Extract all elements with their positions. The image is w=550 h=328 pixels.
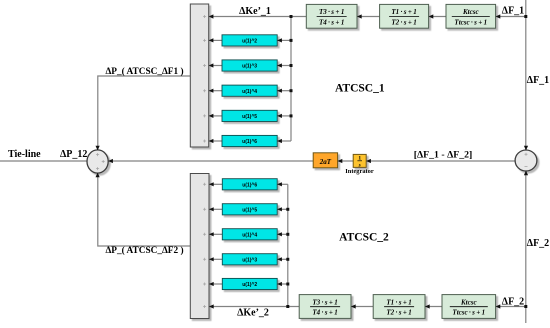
wire top u-block output y=90.7	[209, 90, 222, 92]
block transfer-fcn U_TF1b T3s+1/T4s+1	[299, 295, 351, 319]
svg-text:T4 · s + 1: T4 · s + 1	[319, 18, 344, 26]
block transfer-fcn U_TF1a T3s+1/T4s+1	[306, 4, 357, 28]
junction top feeder branch y=115.9	[290, 114, 293, 117]
wire dF_1 tap to top tcsc block	[496, 16, 526, 18]
arrowhead into sum2 y=209.3	[209, 207, 214, 211]
block Fcn u(1)^2 (bottom group)	[222, 278, 277, 289]
wire top u-block output y=40.4	[209, 39, 222, 41]
arrowhead into TCSC1	[496, 14, 501, 18]
junction bottom feeder branch y=259.3	[286, 258, 289, 261]
wire bottom u-block output y=259.3	[209, 258, 222, 260]
svg-text:u(1)^4: u(1)^4	[242, 232, 257, 238]
junction top feeder tap	[290, 15, 293, 18]
arrowhead into sum1 y=40.4	[209, 38, 214, 42]
svg-text:T3 · s + 1: T3 · s + 1	[312, 298, 337, 306]
svg-text:ΔP_( ATCSC_ΔF1 ): ΔP_( ATCSC_ΔF1 )	[105, 66, 183, 77]
junction dF_2 tap	[524, 305, 527, 308]
wire 2aT output to left sum	[108, 160, 313, 162]
arrowhead into sum1 dKe1 port	[209, 14, 214, 18]
arrowhead into sum2 y=284.0	[209, 282, 214, 286]
wire top feeder stub y=115.9	[277, 115, 291, 117]
svg-text:u(1)^2: u(1)^2	[242, 39, 257, 45]
wire bottom feeder vertical for power blocks	[287, 184, 289, 306]
wire dP_(ATCSC_dF2): sum2 output horizontal	[98, 173, 191, 246]
svg-text:u(1)^5: u(1)^5	[242, 207, 257, 213]
arrowhead into bottom u-block y=259.3	[277, 257, 282, 261]
arrowhead into top u-block y=90.7	[277, 89, 282, 93]
arrowhead into TCSC2	[496, 304, 501, 308]
block Fcn u(1)^3 (bottom group)	[222, 254, 277, 265]
svg-text:T2 · s + 1: T2 · s + 1	[386, 309, 411, 317]
wire bottom feeder stub y=259.3	[277, 258, 288, 260]
arrowhead into top u-block y=141.0	[277, 139, 282, 143]
block gain 2aT	[313, 153, 337, 168]
wire bottom feeder stub y=184.3	[277, 183, 288, 185]
svg-text:T3 · s + 1: T3 · s + 1	[319, 8, 344, 16]
svg-text:Ttcsc · s + 1: Ttcsc · s + 1	[452, 309, 485, 317]
wire top u-block output y=65.5	[209, 65, 222, 67]
wire top feeder stub y=40.4	[277, 39, 291, 41]
wire bottom u-block output y=284.0	[209, 283, 222, 285]
svg-text:ΔKe’_2: ΔKe’_2	[237, 308, 269, 319]
svg-text:u(1)^6: u(1)^6	[242, 139, 257, 145]
arrowhead into 2aT	[338, 159, 343, 163]
svg-text:Tie-line: Tie-line	[8, 149, 41, 160]
wire top tcsc block to lead-lag2	[429, 16, 446, 18]
svg-text:ATCSC_2: ATCSC_2	[339, 232, 389, 244]
svg-text:u(1)^5: u(1)^5	[242, 114, 257, 120]
arrowhead into sum1 y=65.5	[209, 63, 214, 67]
svg-text:u(1)^6: u(1)^6	[242, 182, 257, 188]
wire top feeder vertical for power blocks	[290, 17, 292, 142]
wire net [dF1-dF2] from right sum to integrator	[366, 160, 515, 162]
svg-text:u(1)^3: u(1)^3	[242, 64, 257, 70]
wire dKe2 line: lead-lag1b output to sum2	[209, 306, 299, 308]
arrowhead into sum1 y=141.0	[209, 139, 214, 143]
wire top lead-lag2 to lead-lag1	[357, 16, 380, 18]
sum block Sum1 (ATCSC_1 summer)	[190, 4, 208, 147]
junction top feeder branch y=40.4	[290, 39, 293, 42]
junction top feeder branch y=90.7	[290, 89, 293, 92]
right sum plus marks	[525, 153, 528, 167]
arrowhead into TF2a	[429, 14, 434, 18]
sum block Sum2 (ATCSC_2 summer)	[190, 174, 209, 319]
arrowhead into bottom u-block y=284.0	[277, 282, 282, 286]
arrowhead into left sum bottom	[96, 173, 100, 178]
arrowhead into TF2b	[425, 304, 430, 308]
svg-text:Ktcsc: Ktcsc	[460, 298, 477, 306]
svg-text:ATCSC_1: ATCSC_1	[335, 82, 385, 94]
junction bottom feeder tap	[286, 305, 289, 308]
svg-text:ΔF_1: ΔF_1	[502, 6, 524, 17]
wire top feeder stub y=141.0	[277, 140, 291, 142]
wire top u-block output y=115.9	[209, 115, 222, 117]
arrowhead into left sum top	[96, 146, 100, 151]
arrowhead into bottom u-block y=209.3	[277, 207, 282, 211]
arrowhead into top u-block y=40.4	[277, 38, 282, 42]
arrowhead into TF1b	[351, 304, 356, 308]
svg-text:u(1)^4: u(1)^4	[242, 89, 257, 95]
svg-text:2aT: 2aT	[319, 158, 332, 166]
sum circle left (tie-line summer)	[87, 150, 108, 173]
svg-text:ΔF_2: ΔF_2	[502, 297, 524, 308]
arrowhead into bottom u-block y=234.3	[277, 232, 282, 236]
wire dF_2 tap to bottom tcsc block	[496, 306, 526, 308]
svg-text:T2 · s + 1: T2 · s + 1	[391, 18, 416, 26]
block Fcn u(1)^6 (bottom group)	[222, 179, 277, 190]
sum1 port plus marks	[203, 15, 206, 143]
wire top feeder stub y=65.5	[277, 65, 291, 67]
junction top feeder branch y=65.5	[290, 64, 293, 67]
arrowhead into right sum top	[524, 146, 528, 151]
sum2 port plus marks	[203, 183, 206, 308]
wire dKe1 line: lead-lag1 output to sum1	[209, 16, 307, 18]
block Fcn u(1)^4 (bottom group)	[222, 229, 277, 240]
wire dF_1 vertical feed to right sum top	[525, 0, 527, 150]
arrowhead into left sum from 2aT	[108, 159, 113, 163]
block Fcn u(1)^4 (top group)	[222, 85, 277, 96]
svg-text:T4 · s + 1: T4 · s + 1	[312, 309, 337, 317]
svg-text:Ttcsc · s + 1: Ttcsc · s + 1	[454, 18, 487, 26]
wire bottom u-block output y=234.3	[209, 233, 222, 235]
arrowhead into sum2 y=234.3	[209, 232, 214, 236]
wire top u-block output y=141.0	[209, 140, 222, 142]
wire bottom feeder stub y=284.0	[277, 283, 288, 285]
svg-text:u(1)^2: u(1)^2	[242, 282, 257, 288]
block Fcn u(1)^5 (top group)	[222, 110, 277, 121]
wire tie-line output from left sum to left edge	[0, 160, 87, 162]
arrowhead into sum2 y=259.3	[209, 257, 214, 261]
arrowhead into right sum bottom	[524, 171, 528, 176]
wire top feeder stub y=90.7	[277, 90, 291, 92]
svg-text:Integrator: Integrator	[345, 168, 374, 175]
arrowhead into top u-block y=115.9	[277, 114, 282, 118]
svg-text:ΔP_( ATCSC_ΔF2 ): ΔP_( ATCSC_ΔF2 )	[105, 245, 183, 256]
block Fcn u(1)^5 (bottom group)	[222, 204, 277, 215]
block Integrator 1/s	[353, 154, 366, 168]
wire bottom u-block output y=184.3	[209, 183, 222, 185]
junction bottom feeder branch y=284.0	[286, 283, 289, 286]
svg-text:Ktcsc: Ktcsc	[462, 8, 479, 16]
wire bottom tcsc block to lead-lag2b	[425, 306, 442, 308]
arrowhead into Integrator	[366, 159, 371, 163]
svg-text:u(1)^3: u(1)^3	[242, 257, 257, 263]
svg-text:[ΔF_1 - ΔF_2]: [ΔF_1 - ΔF_2]	[414, 149, 473, 160]
wire bottom lead-lag2b to lead-lag1b	[351, 306, 373, 308]
wire dF_2 vertical feed from bottom junction to right sum	[525, 171, 527, 323]
svg-text:ΔP_12: ΔP_12	[60, 149, 87, 160]
junction bottom feeder branch y=209.3	[286, 208, 289, 211]
block transfer-fcn U_TF2b T1s+1/T2s+1	[373, 295, 425, 319]
svg-text:ΔF_1: ΔF_1	[527, 75, 549, 86]
svg-text:T1 · s + 1: T1 · s + 1	[391, 8, 416, 16]
block Fcn u(1)^3 (top group)	[222, 60, 277, 71]
block transfer-fcn U_TF2a T1s+1/T2s+1	[380, 4, 429, 28]
svg-text:ΔF_2: ΔF_2	[527, 238, 549, 249]
wire bottom feeder stub y=234.3	[277, 233, 288, 235]
block Fcn u(1)^6 (top group)	[222, 135, 277, 146]
arrowhead into sum1 y=115.9	[209, 114, 214, 118]
sum circle right (dF_1 - dF_2)	[515, 150, 537, 171]
arrowhead into top u-block y=65.5	[277, 63, 282, 67]
wire integrator output to 2aT gain	[337, 160, 353, 162]
svg-text:ΔKe’_1: ΔKe’_1	[239, 6, 271, 17]
block Fcn u(1)^2 (top group)	[222, 35, 277, 46]
block transfer-fcn U_TCSC1 Ktcsc/(Ttcsc s+1)	[446, 4, 496, 28]
wire dP_(ATCSC_dF1): sum1 output horizontal	[98, 76, 191, 150]
arrowhead into TF1a	[357, 14, 362, 18]
arrowhead into sum2 y=184.3	[209, 182, 214, 186]
arrowhead into sum2 dKe2 port	[209, 304, 214, 308]
wire bottom u-block output y=209.3	[209, 208, 222, 210]
left sum plus marks	[96, 153, 105, 170]
wire bottom feeder stub y=209.3	[277, 208, 288, 210]
block transfer-fcn U_TCSC2 Ktcsc/(Ttcsc s+1)	[442, 295, 496, 319]
svg-text:T1 · s + 1: T1 · s + 1	[386, 298, 411, 306]
junction bottom feeder branch y=234.3	[286, 233, 289, 236]
junction dF_1 tap	[524, 15, 527, 18]
arrowhead into sum1 y=90.7	[209, 89, 214, 93]
arrowhead into bottom u-block y=184.3	[277, 182, 282, 186]
